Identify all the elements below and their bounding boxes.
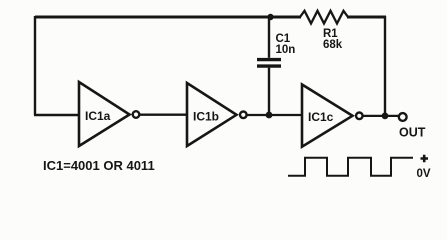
svg-text:IC1c: IC1c [308,110,334,124]
svg-text:68k: 68k [323,39,343,51]
svg-text:IC1b: IC1b [193,110,219,124]
node junction C1 to wire [266,112,273,119]
inverter gate IC1b [187,83,237,146]
inversion bubble IC1b [240,112,247,119]
svg-text:OUT: OUT [399,126,426,140]
wire left vertical feedback [34,16,36,115]
inversion bubble IC1a [133,111,140,118]
wire IC1a output to IC1b input [140,114,187,116]
wire right vertical from resistor down [384,16,386,116]
inversion bubble IC1c [356,113,363,120]
wire IC1c output to OUT terminal [363,115,398,117]
wire IC1b output to IC1c input [247,114,302,116]
capacitor C1 [268,17,270,58]
waveform output square wave [288,158,413,176]
svg-text:10n: 10n [276,44,296,56]
node junction right vertical to output wire [382,113,389,120]
svg-text:C1: C1 [276,33,291,45]
wire top horizontal right section [347,16,386,19]
svg-text:0V: 0V [417,168,431,180]
label + [421,155,429,163]
wire left horizontal into IC1a [34,114,79,116]
svg-text:IC1=4001 OR 4011: IC1=4001 OR 4011 [43,158,155,173]
inverter gate IC1a [79,82,130,146]
wire top horizontal left section [35,16,301,19]
inverter gate IC1c [302,85,353,147]
svg-text:IC1a: IC1a [85,109,111,123]
terminal OUT [399,113,407,121]
node junction top of C1 [267,14,273,20]
resistor R1 [300,11,348,24]
